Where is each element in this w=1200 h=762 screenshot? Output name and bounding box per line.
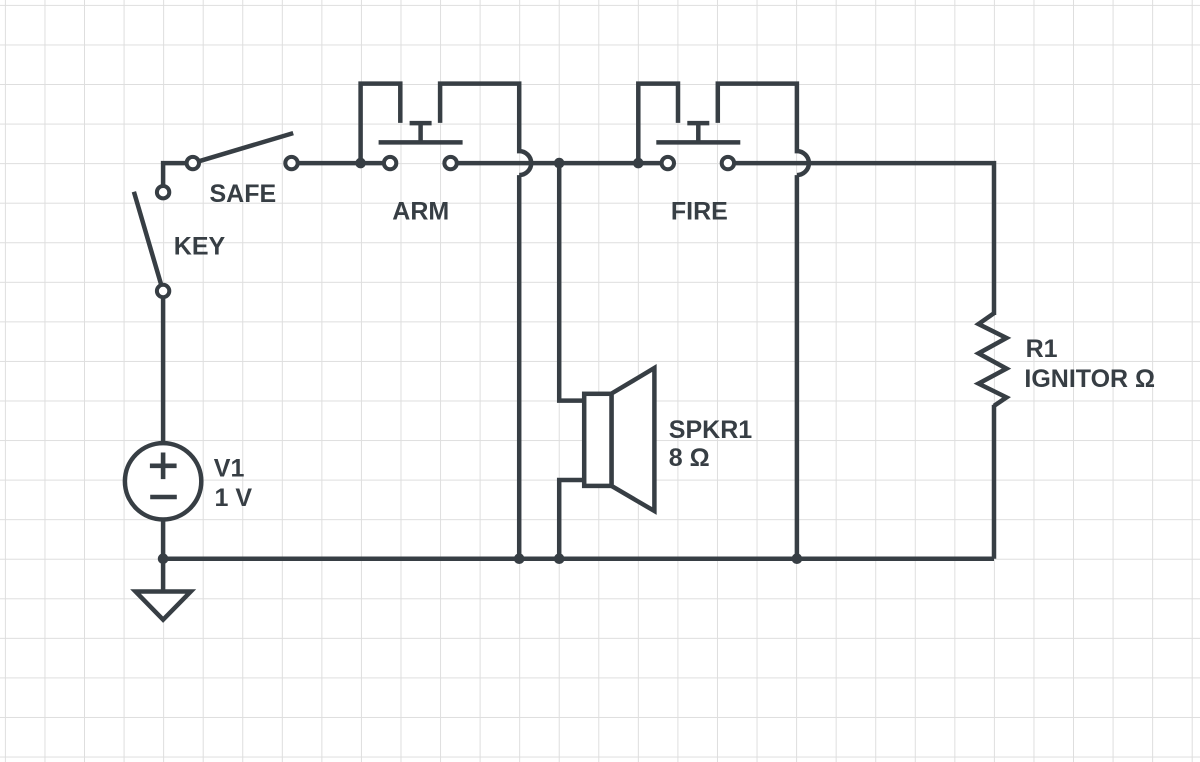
svg-text:SPKR1: SPKR1 — [669, 416, 752, 444]
svg-text:IGNITOR Ω: IGNITOR Ω — [1024, 365, 1155, 393]
speaker SPKR1 horn — [612, 368, 655, 511]
pushbutton ARM right terminal — [444, 157, 456, 169]
pushbutton FIRE right terminal — [722, 157, 734, 169]
wire speaker bottom branch to rail — [559, 480, 590, 559]
wire speaker top branch from top node — [559, 163, 590, 401]
voltage source V1 circle — [125, 443, 201, 519]
junction node at speaker top branch — [554, 158, 565, 169]
pushbutton ARM right staple wire with hop over main wire — [440, 84, 531, 176]
pushbutton FIRE right staple wire with hop over main wire — [718, 84, 809, 176]
pushbutton FIRE left staple wire — [638, 84, 678, 164]
speaker SPKR1 body rectangle — [584, 394, 611, 486]
pushbutton ARM left staple wire — [361, 84, 401, 164]
pushbutton FIRE actuator T — [687, 123, 709, 142]
junction node rail at speaker branch — [554, 553, 565, 564]
pushbutton ARM bridge bar — [379, 140, 463, 145]
ground symbol — [136, 559, 191, 620]
junction node rail at FIRE branch — [792, 553, 803, 564]
voltage source V1 minus sign — [150, 495, 177, 500]
voltage source V1 plus sign — [150, 453, 177, 480]
switch KEY lever — [134, 192, 161, 285]
pushbutton ARM left terminal — [384, 157, 396, 169]
svg-text:ARM: ARM — [392, 198, 449, 226]
wire V1 bottom to ground rail — [161, 516, 166, 559]
svg-text:1 V: 1 V — [215, 484, 253, 512]
resistor R1 zigzag — [979, 313, 1007, 406]
wire FIRE branch below hop to rail — [795, 175, 800, 559]
wire ARM branch below hop to rail — [517, 175, 522, 559]
switch SAFE left terminal — [187, 157, 199, 169]
pushbutton FIRE left terminal — [662, 157, 674, 169]
svg-text:V1: V1 — [214, 454, 245, 482]
svg-text:8 Ω: 8 Ω — [669, 444, 710, 472]
pushbutton ARM actuator T — [410, 123, 432, 142]
switch KEY top terminal — [157, 186, 169, 198]
wire KEY bottom terminal to V1 top — [161, 291, 166, 448]
switch KEY bottom terminal — [157, 285, 169, 297]
junction node rail at V1/ground — [158, 553, 169, 564]
wire SAFE right terminal to ARM left terminal — [291, 161, 390, 166]
junction node at ARM left — [355, 158, 366, 169]
wire resistor R1 bottom lead to rail — [992, 405, 997, 559]
junction node rail at ARM branch — [514, 553, 525, 564]
wire corner left of SAFE down to KEY — [163, 163, 193, 191]
svg-text:SAFE: SAFE — [210, 180, 277, 208]
svg-text:KEY: KEY — [174, 233, 226, 261]
wire ARM right terminal to FIRE left terminal — [451, 161, 668, 166]
switch SAFE lever — [199, 133, 293, 161]
junction node at FIRE left — [633, 158, 644, 169]
wire bottom rail — [163, 556, 994, 561]
svg-text:FIRE: FIRE — [671, 198, 728, 226]
switch SAFE right terminal — [285, 157, 297, 169]
svg-text:R1: R1 — [1026, 335, 1058, 363]
wire FIRE right terminal to top-right corner down to resistor R1 — [729, 163, 994, 315]
pushbutton FIRE bridge bar — [656, 140, 740, 145]
